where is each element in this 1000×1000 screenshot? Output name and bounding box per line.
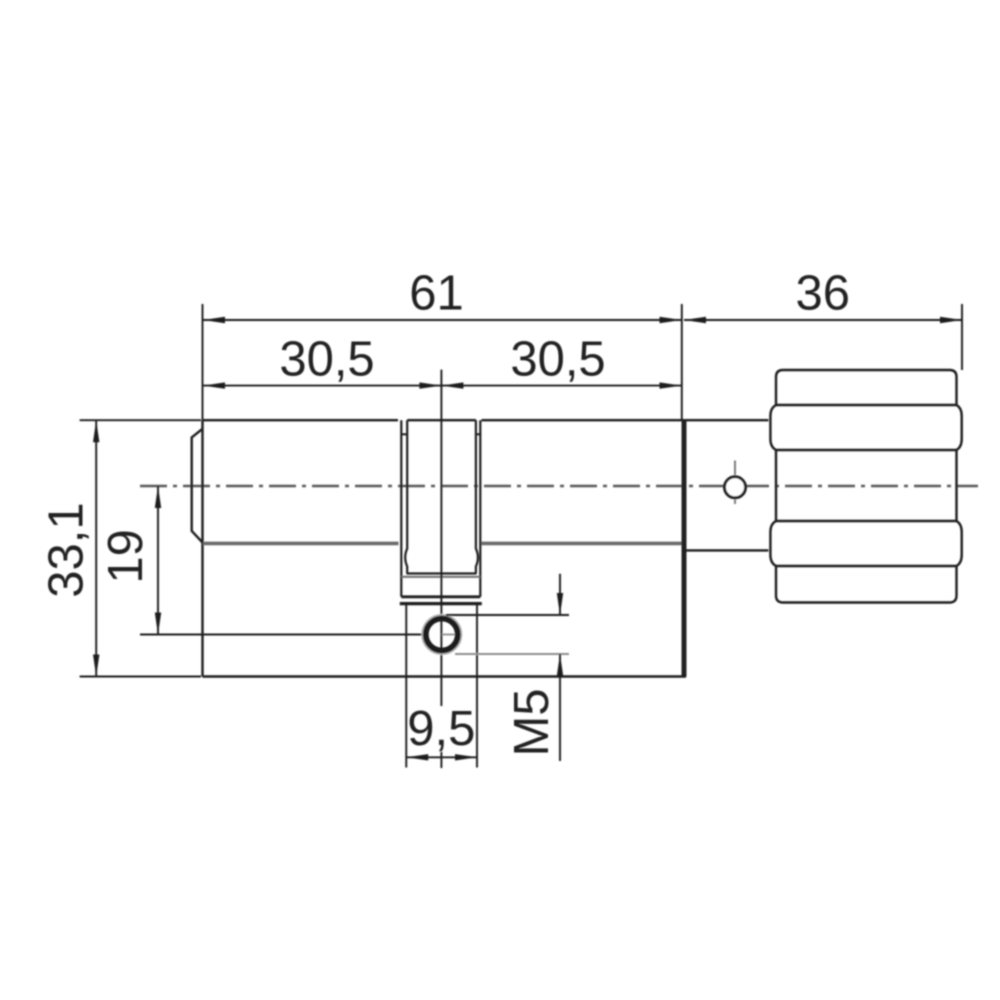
dimension line 30,5 left [203, 385, 441, 387]
cylinder body top edge [203, 419, 769, 421]
shaft pin hole [725, 477, 746, 498]
fixing screw hole M5 [422, 615, 461, 654]
cam slot bottom line [407, 572, 477, 574]
M5 tangent line top [446, 614, 569, 616]
cam slot outer left edge [400, 420, 402, 597]
svg-text:19: 19 [99, 529, 153, 584]
cam ring gray line [401, 576, 480, 578]
extension line 19 bottom (hole axis) [140, 634, 422, 636]
svg-text:30,5: 30,5 [279, 333, 374, 387]
dimension line 33,1 [95, 420, 97, 676]
svg-text:9,5: 9,5 [407, 702, 475, 756]
cam block bottom line [401, 595, 480, 598]
extension line 33,1 bottom [80, 676, 201, 678]
extension line middle (body right) [681, 304, 683, 420]
svg-text:61: 61 [409, 267, 464, 321]
cylinder body right edge (thick) [682, 420, 687, 676]
shaft pin hole centerline [734, 461, 736, 505]
svg-text:30,5: 30,5 [510, 333, 605, 387]
cam slot inner left edge [405, 420, 407, 573]
dimension line 61 [203, 319, 682, 321]
web bottom edge [203, 675, 687, 677]
extension line 33,1 top [80, 419, 201, 421]
plug face chamfer [192, 429, 203, 543]
cylinder body left edge [201, 420, 203, 676]
dimension line M5 [559, 574, 561, 761]
M5 tangent line bottom (gray) [455, 653, 569, 655]
knob groove line 3 [776, 520, 957, 522]
cam slot outer right edge [479, 420, 481, 597]
extension line right (knob right) [961, 304, 963, 370]
extension line left (body left) [202, 304, 204, 420]
cam slot left tick [401, 433, 407, 435]
knob groove line 1 [776, 404, 957, 406]
svg-text:M5: M5 [505, 688, 559, 756]
dimension line 30,5 right [441, 385, 681, 387]
barrel bottom line (gray) [203, 542, 682, 546]
dimension line 36 [684, 319, 962, 321]
svg-text:36: 36 [795, 267, 850, 321]
extension line center split [440, 370, 442, 768]
cam slot inner right edge [476, 420, 478, 573]
dimension line 9,5 [406, 756, 477, 758]
extension line 9,5 right [476, 605, 478, 768]
thumbturn knob outline [770, 370, 961, 603]
knob groove line 2 [776, 449, 957, 451]
shaft bottom edge [687, 549, 769, 551]
extension line 9,5 left [405, 605, 407, 768]
knob groove line 4 [776, 565, 957, 567]
cam lower plate line [400, 602, 482, 605]
cam slot right tick [476, 433, 480, 435]
dimension line 19 [157, 486, 159, 635]
centerline main axis [140, 485, 978, 488]
svg-text:33,1: 33,1 [39, 502, 93, 597]
screw hole center tick [442, 634, 455, 636]
